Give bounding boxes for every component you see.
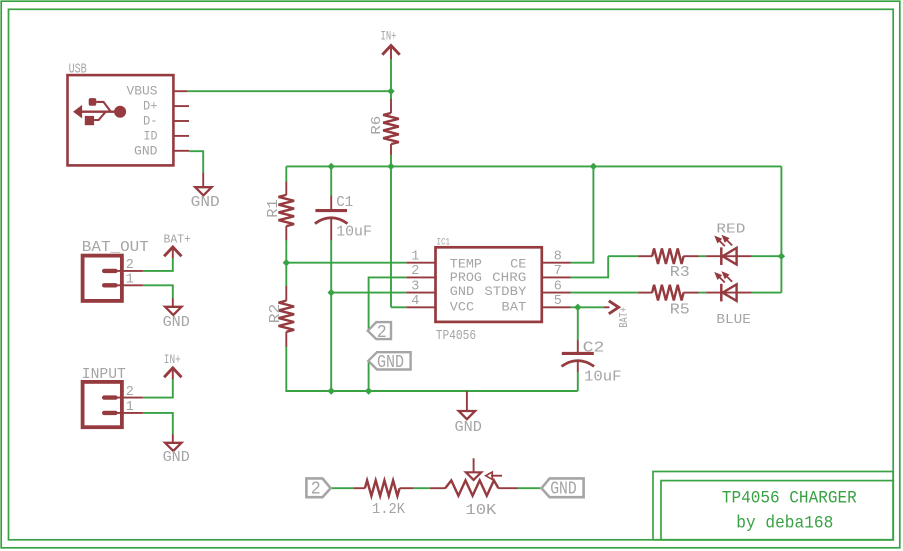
svg-text:D-: D- (143, 114, 158, 129)
svg-text:BLUE: BLUE (716, 312, 751, 328)
svg-text:10uF: 10uF (584, 369, 622, 385)
svg-text:1: 1 (126, 272, 134, 287)
svg-text:6: 6 (554, 279, 562, 294)
svg-text:VCC: VCC (450, 300, 475, 315)
svg-text:STDBY: STDBY (484, 284, 526, 299)
svg-text:10uF: 10uF (336, 224, 372, 240)
svg-text:3: 3 (411, 279, 419, 294)
svg-text:2: 2 (126, 258, 134, 273)
svg-text:R2: R2 (268, 304, 284, 324)
svg-text:TP4056: TP4056 (436, 328, 477, 344)
svg-text:GND: GND (455, 420, 482, 436)
svg-text:by deba168: by deba168 (736, 514, 833, 534)
svg-text:GND: GND (377, 353, 404, 373)
svg-text:BAT+: BAT+ (164, 232, 191, 246)
svg-text:GND: GND (134, 143, 158, 158)
svg-text:10K: 10K (465, 503, 496, 519)
svg-text:BAT+: BAT+ (618, 307, 631, 328)
svg-text:7: 7 (554, 264, 562, 279)
svg-text:INPUT: INPUT (82, 366, 126, 383)
svg-text:BAT_OUT: BAT_OUT (82, 239, 149, 256)
svg-text:2: 2 (126, 385, 134, 400)
svg-text:R3: R3 (670, 265, 690, 281)
svg-text:5: 5 (554, 294, 562, 309)
svg-text:2: 2 (311, 479, 321, 500)
svg-text:CHRG: CHRG (492, 270, 526, 285)
svg-text:D+: D+ (143, 99, 158, 114)
svg-text:ID: ID (144, 128, 158, 143)
svg-text:1: 1 (126, 400, 134, 415)
svg-text:C2: C2 (583, 341, 605, 357)
svg-text:4: 4 (411, 294, 419, 309)
svg-text:R6: R6 (369, 116, 385, 135)
svg-text:C1: C1 (336, 195, 353, 211)
svg-text:1.2K: 1.2K (372, 502, 405, 518)
svg-text:1: 1 (411, 250, 419, 265)
svg-text:PROG: PROG (450, 270, 482, 285)
svg-text:GND: GND (450, 284, 475, 299)
svg-text:2: 2 (377, 323, 387, 343)
svg-text:GND: GND (163, 315, 190, 331)
svg-text:GND: GND (191, 195, 220, 211)
svg-text:BAT: BAT (501, 300, 526, 315)
svg-text:GND: GND (163, 450, 190, 466)
svg-text:R1: R1 (266, 199, 282, 218)
svg-text:RED: RED (716, 221, 745, 237)
svg-text:IN+: IN+ (164, 353, 181, 367)
svg-text:TP4056 CHARGER: TP4056 CHARGER (722, 489, 857, 509)
svg-text:IC1: IC1 (437, 238, 451, 249)
svg-text:USB: USB (69, 61, 87, 77)
svg-text:IN+: IN+ (381, 29, 397, 43)
svg-text:GND: GND (550, 480, 577, 500)
svg-text:VBUS: VBUS (127, 84, 158, 99)
svg-text:8: 8 (554, 250, 562, 265)
svg-text:R5: R5 (670, 303, 690, 319)
svg-text:2: 2 (411, 264, 419, 279)
